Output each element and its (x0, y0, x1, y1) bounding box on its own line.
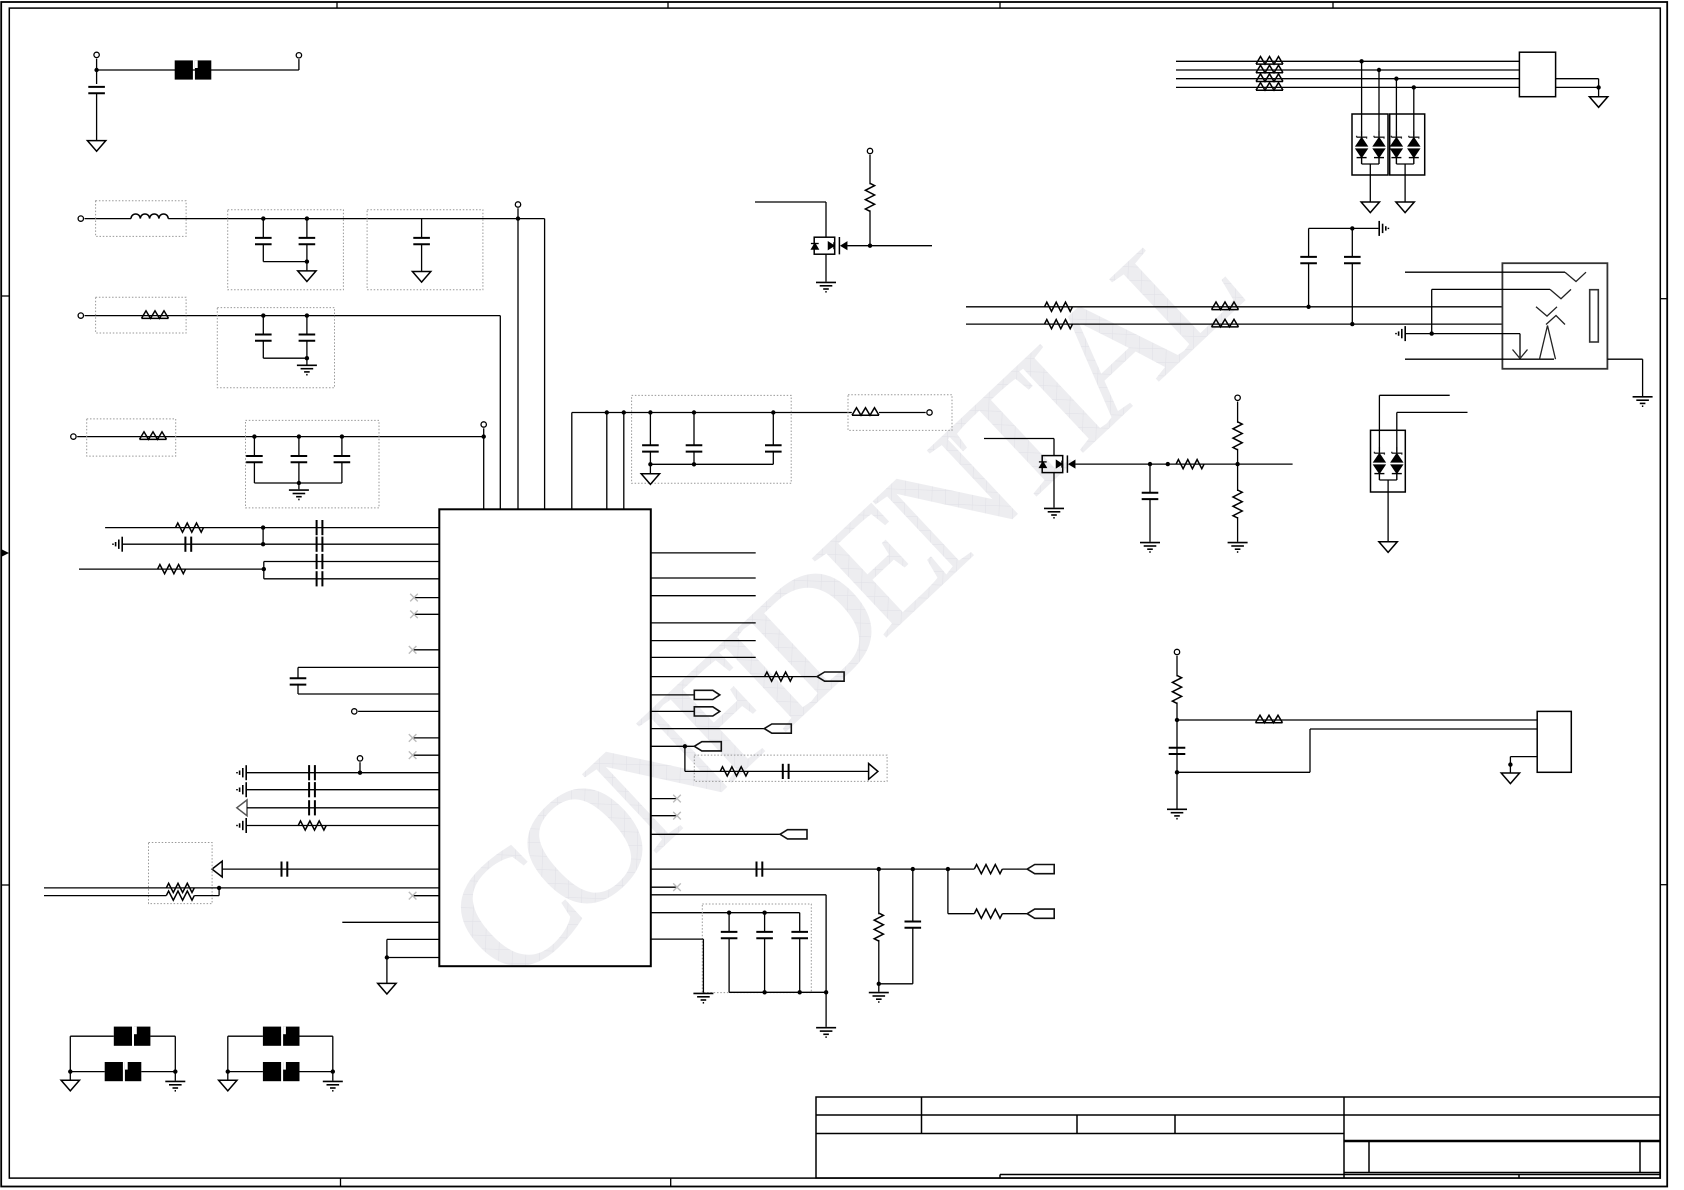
ground (61, 1080, 79, 1091)
resistor R23 (1176, 460, 1204, 469)
junction (261, 542, 265, 546)
rc net box (694, 755, 887, 781)
ground (289, 490, 309, 499)
ground sideways (1396, 326, 1405, 341)
wire rail (572, 412, 852, 414)
wire line L (966, 306, 1502, 308)
gate wire (848, 245, 933, 247)
mosfet Q2 (1039, 455, 1075, 472)
resistor pair box (149, 843, 213, 904)
junction (868, 244, 872, 248)
capacitor C20 (1149, 464, 1151, 493)
wire rail (729, 991, 826, 993)
junction (331, 1069, 335, 1073)
resistor R1 (142, 311, 169, 319)
wire (168, 218, 544, 220)
capacitor C15 (764, 913, 766, 932)
capacitor C7 (253, 437, 255, 456)
capacitor C6 (306, 316, 308, 335)
junction (762, 990, 766, 994)
junction (771, 410, 775, 414)
tvs D4 (1413, 87, 1415, 131)
capacitor C14 (728, 913, 730, 932)
ground (1044, 508, 1064, 517)
junction (305, 313, 309, 317)
ground (1228, 543, 1248, 552)
ground sideways (237, 818, 246, 833)
wire u-join (1396, 163, 1413, 165)
capacitor series (185, 537, 191, 552)
ground (1167, 809, 1187, 818)
resistor box (96, 297, 187, 333)
wire (1176, 656, 1178, 677)
wire pin (264, 578, 440, 580)
wire pin (342, 921, 439, 923)
junction (1175, 718, 1179, 722)
tvs D2 (1378, 70, 1380, 131)
junction (946, 867, 950, 871)
wire (1053, 473, 1055, 508)
wire (298, 59, 300, 70)
junction (648, 410, 652, 414)
nc pin (651, 798, 677, 800)
capacitor C9 (341, 437, 343, 456)
wire rail (254, 482, 342, 484)
ground (219, 1080, 237, 1091)
resistor R15 (1256, 57, 1283, 65)
wire pin (105, 527, 439, 529)
junction (1377, 68, 1381, 72)
junction (261, 216, 265, 220)
connector J3 (1537, 711, 1571, 772)
terminal (71, 434, 76, 439)
ground sideways (237, 765, 246, 780)
wire (262, 528, 264, 545)
capacitor C13 (290, 678, 307, 684)
capacitor C3 (306, 219, 308, 238)
tvs box (1371, 430, 1406, 492)
terminal (78, 313, 83, 318)
wire (1406, 333, 1520, 335)
gate wire (1076, 463, 1293, 465)
tvs D5 (1374, 447, 1385, 480)
wire pin (651, 656, 756, 658)
terminal (1174, 649, 1179, 654)
capacitor series (309, 765, 315, 780)
capacitor C8 (298, 437, 300, 456)
fuse FB3 (263, 1027, 300, 1046)
ground (641, 474, 659, 485)
junction (1412, 85, 1416, 89)
wire (194, 895, 219, 897)
junction (1235, 462, 1239, 466)
junction (226, 1069, 230, 1073)
junction (692, 462, 696, 466)
wire pin (264, 561, 440, 563)
junction (1359, 59, 1363, 63)
nc pin (413, 737, 440, 739)
fuse F1 (175, 60, 212, 79)
resistor R19 (1045, 302, 1073, 311)
output triangle (869, 764, 878, 780)
capacitor series (309, 800, 315, 815)
wires (70, 1071, 104, 1073)
ground (1589, 97, 1607, 108)
switch mark (1550, 289, 1571, 298)
ground sideways (113, 537, 122, 552)
arrow head (1513, 350, 1528, 359)
resistor R9 (765, 672, 793, 681)
wire (44, 895, 166, 897)
junction (252, 434, 256, 438)
terminal (1235, 395, 1240, 400)
capacitor series (757, 862, 763, 877)
title block (816, 1097, 1660, 1178)
junction (1430, 331, 1434, 335)
ground (816, 282, 836, 291)
capacitor C4 (421, 219, 423, 238)
switch mark (1536, 307, 1557, 316)
net flag (817, 672, 844, 681)
terminal (867, 148, 872, 153)
junction (798, 990, 802, 994)
cap pair box (228, 210, 344, 290)
wire pin (247, 825, 439, 827)
ground (1501, 773, 1519, 784)
junction (1175, 770, 1179, 774)
junction (305, 356, 309, 360)
capacitor series (317, 554, 323, 569)
wires (228, 1035, 263, 1037)
ground (87, 141, 105, 152)
wire pin (651, 676, 817, 678)
resistor R20 (1212, 302, 1239, 310)
ground (323, 1081, 343, 1090)
tip triangle (1540, 326, 1556, 360)
resistor box (87, 419, 176, 456)
IC U1 (439, 509, 651, 966)
capacitor C21 (1169, 748, 1186, 754)
resistor R10 (720, 767, 748, 776)
wire (85, 315, 501, 317)
ground (869, 993, 889, 1002)
junction (911, 867, 915, 871)
pin wire sleeve (1405, 358, 1554, 360)
capacitor C10 (649, 413, 651, 446)
wire (623, 413, 625, 510)
jack J2 (1502, 263, 1607, 369)
junction (1166, 462, 1170, 466)
inductor L1 box (96, 201, 187, 237)
wire cap rail (1309, 227, 1379, 229)
junction (297, 481, 301, 485)
terminal (515, 202, 520, 207)
junction (727, 911, 731, 915)
wire u-join (1362, 163, 1379, 165)
wire (359, 762, 361, 773)
gnd hook pins (387, 938, 439, 940)
tvs box 2 (1390, 114, 1425, 175)
wire rail (650, 463, 773, 465)
wire pin (651, 868, 975, 870)
junction (824, 990, 828, 994)
fuse FB4 (263, 1062, 300, 1081)
wire pin cap rail (651, 912, 800, 914)
wire pin (222, 868, 439, 870)
tvs D6 (1391, 447, 1402, 480)
wire (1002, 868, 1027, 870)
junction (94, 68, 98, 72)
resistor R16 (1256, 65, 1283, 73)
capacitor C11 (693, 413, 695, 446)
capacitor C17 (912, 869, 914, 921)
junction (340, 434, 344, 438)
capacitor series (282, 862, 288, 877)
net flag (694, 690, 720, 699)
resistor R2 (140, 432, 167, 440)
tvs box 1 (1352, 114, 1388, 175)
resistor R8 (166, 891, 194, 900)
wire (1237, 402, 1239, 423)
wire (685, 770, 869, 772)
wire pin (651, 577, 756, 579)
wire pin (651, 728, 765, 730)
ground (816, 1028, 836, 1037)
capacitor C16 (799, 913, 801, 932)
junction (262, 567, 266, 571)
ground (165, 1081, 185, 1090)
ground (298, 271, 316, 282)
wire pin (79, 568, 264, 570)
junction (297, 434, 301, 438)
fuse FB2 (105, 1062, 142, 1081)
wire pin (651, 552, 756, 554)
resistor R14 vertical (865, 183, 874, 211)
junction (482, 434, 486, 438)
wire pin (651, 595, 756, 597)
terminal (357, 756, 362, 761)
junction (1508, 762, 1512, 766)
junction (1350, 322, 1354, 326)
resistor R6 (298, 821, 326, 830)
net flag (1027, 865, 1054, 874)
capacitor C19 (1351, 228, 1353, 257)
wire (984, 438, 1054, 440)
wire pin (44, 887, 439, 889)
input triangle (237, 800, 247, 816)
resistor R17 (1256, 74, 1283, 82)
resistor R26 vertical (1172, 675, 1181, 703)
capacitor series (317, 571, 323, 586)
resistor R22 (1212, 319, 1239, 327)
tvs D1 (1361, 61, 1363, 131)
terminal P1 (94, 52, 99, 57)
birdfoot (1546, 316, 1565, 325)
cap pair box (217, 308, 334, 388)
resistor R11 (974, 865, 1002, 874)
input triangle (212, 861, 222, 877)
junction (605, 410, 609, 414)
resistor box (848, 395, 952, 431)
resistor R3 (852, 408, 879, 416)
tvs D3 (1395, 79, 1397, 131)
ground (693, 993, 713, 1002)
bus wires (1176, 60, 1519, 62)
resistor R5 (158, 565, 186, 574)
nc pin (651, 815, 677, 817)
ground (378, 983, 396, 994)
mosfet Q1 (811, 237, 847, 254)
junction (648, 462, 652, 466)
wire (879, 983, 913, 985)
capacitor series (317, 520, 323, 535)
nc pin (414, 597, 439, 599)
capacitor C1 (88, 87, 105, 93)
inductor L1 (131, 214, 168, 219)
wire out (1607, 358, 1642, 360)
wire pin (123, 543, 439, 545)
wire pin (651, 694, 695, 696)
terminal (481, 422, 486, 427)
wire (544, 219, 546, 510)
resistor R12 vertical (878, 869, 880, 914)
capacitor series (317, 537, 323, 552)
gnd hook (1510, 756, 1537, 758)
ground (412, 272, 430, 283)
resistor R27 (1256, 715, 1283, 723)
ground sideways right (1379, 221, 1388, 236)
wire (1379, 394, 1449, 396)
terminal (352, 709, 357, 714)
resistor R25 vertical (1233, 490, 1242, 518)
resistor R4 (176, 523, 204, 532)
fuse FB1 (114, 1027, 151, 1046)
wire pin (651, 622, 756, 624)
net flag (694, 707, 720, 716)
resistor R21 (1045, 320, 1073, 329)
nc pin (413, 754, 440, 756)
wire branch (947, 869, 949, 914)
wire line R (966, 323, 1502, 325)
capacitor C2 (262, 219, 264, 238)
decoupling box (702, 904, 811, 993)
pin wire (1432, 288, 1550, 290)
wire (1556, 78, 1599, 80)
junction (762, 911, 766, 915)
net flag (1027, 909, 1054, 918)
capacitor C18 (1308, 228, 1310, 257)
junction (68, 1069, 72, 1073)
net flag (764, 724, 791, 733)
capacitor series (783, 764, 789, 779)
wire pin (651, 833, 780, 835)
terminal (927, 410, 932, 415)
ground (1361, 202, 1379, 213)
junction (305, 216, 309, 220)
resistor R13 (974, 909, 1002, 918)
junction (622, 410, 626, 414)
ground (1633, 397, 1653, 406)
wires (70, 1035, 114, 1037)
junction (683, 744, 687, 748)
junction (305, 259, 309, 263)
crystal cap loop (298, 666, 439, 668)
junction (261, 525, 265, 529)
wire (263, 562, 265, 579)
junction (877, 867, 881, 871)
jack slot (1590, 290, 1599, 342)
single cap box (367, 210, 483, 290)
net flag (780, 830, 807, 839)
wire (869, 155, 871, 185)
wire pin1 (1177, 719, 1537, 721)
terminal (78, 216, 83, 221)
net flag (694, 742, 721, 751)
connector J1 (1519, 52, 1555, 96)
resistor R24 vertical (1233, 422, 1242, 450)
wire (684, 746, 686, 771)
junction (692, 410, 696, 414)
junction (516, 216, 520, 220)
nc pin (651, 886, 677, 888)
ground (1379, 542, 1397, 553)
wire down to IC (483, 428, 485, 509)
pin wire (1405, 271, 1565, 273)
wire (97, 69, 299, 71)
junction (877, 982, 881, 986)
wire (77, 436, 484, 438)
nc pin (413, 895, 440, 897)
capacitor C5 (262, 316, 264, 335)
junction (1350, 226, 1354, 230)
switch mark (1565, 272, 1586, 281)
nc pin (413, 649, 440, 651)
junction (1394, 77, 1398, 81)
junction (1148, 462, 1152, 466)
ground (1396, 202, 1414, 213)
ground sideways (237, 782, 246, 797)
wire (571, 413, 573, 510)
wire pin (247, 789, 439, 791)
junction (173, 1069, 177, 1073)
resistor R18 (1256, 83, 1283, 91)
wire (96, 93, 98, 141)
wire pin (651, 710, 695, 712)
wire (879, 412, 926, 414)
wire (85, 218, 131, 220)
junction (385, 955, 389, 959)
ground (297, 365, 317, 374)
wire pin (651, 640, 756, 642)
junction (358, 771, 362, 775)
junction (217, 886, 221, 890)
capacitor C12 (772, 413, 774, 446)
resistor R7 (166, 883, 194, 892)
wire (1002, 913, 1027, 915)
frame centre arrow (2, 550, 9, 557)
cap trio box (246, 420, 380, 508)
junction (261, 313, 265, 317)
wire pin (247, 807, 439, 809)
wire u-join (1379, 479, 1396, 481)
wire pin gnd2 (651, 938, 704, 940)
cap trio box (632, 395, 792, 483)
junction (1306, 305, 1310, 309)
wire (1397, 411, 1468, 413)
wires (228, 1071, 263, 1073)
wire pin (651, 745, 695, 747)
wire pin (358, 710, 439, 712)
